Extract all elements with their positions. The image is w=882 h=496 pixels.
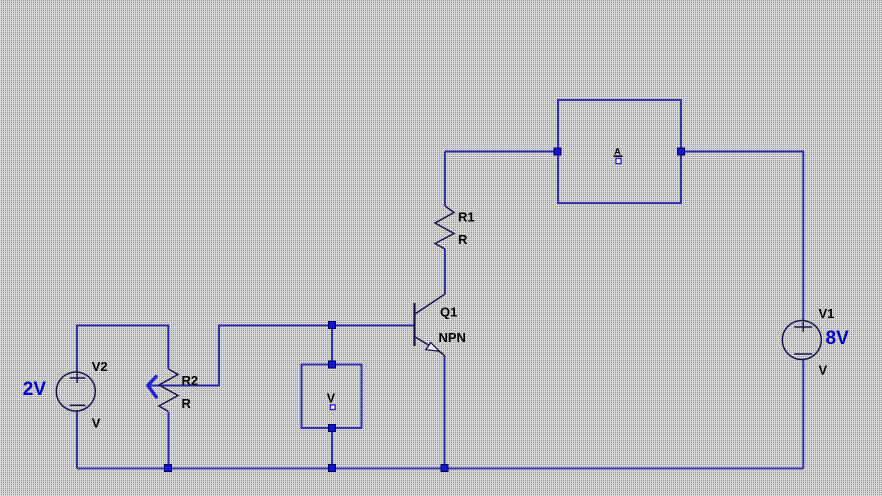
svg-text:NPN: NPN [439,330,466,345]
svg-text:R1: R1 [458,210,475,225]
svg-text:R: R [182,396,192,411]
svg-text:V: V [92,415,101,430]
svg-text:V: V [327,392,336,406]
svg-text:2V: 2V [23,379,47,400]
svg-text:R: R [458,232,468,247]
svg-text:V1: V1 [819,306,835,321]
svg-text:8V: 8V [826,328,850,349]
svg-text:Q1: Q1 [440,304,457,319]
svg-text:V: V [819,363,828,378]
svg-text:V2: V2 [92,359,108,374]
svg-text:A: A [614,146,621,156]
svg-text:R2: R2 [182,373,199,388]
